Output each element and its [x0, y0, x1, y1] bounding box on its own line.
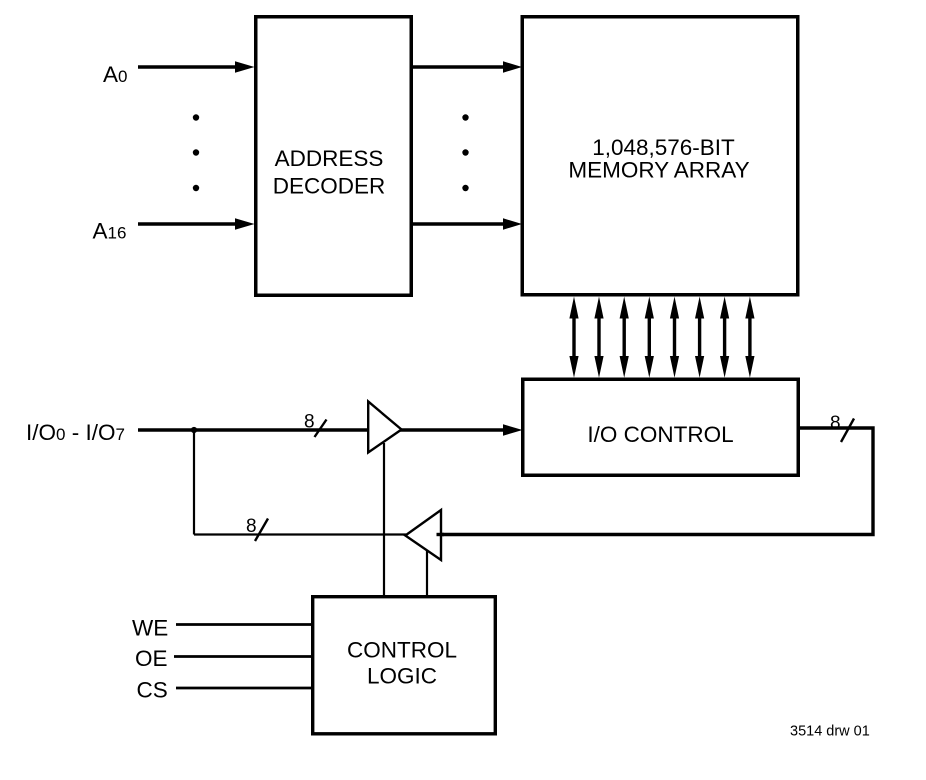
svg-text:3514 drw 01: 3514 drw 01 [790, 724, 870, 740]
wire I/O input bus [138, 428, 370, 432]
wire I/O control output right [441, 428, 873, 535]
svg-text:LOGIC: LOGIC [367, 664, 437, 689]
svg-text:8: 8 [304, 412, 315, 433]
svg-text:I/O0 - I/O7: I/O0 - I/O7 [26, 420, 125, 445]
svg-text:8: 8 [246, 516, 257, 537]
bus slash feedback [255, 519, 268, 542]
wire input buffer enable from control logic [383, 443, 385, 596]
svg-text:I/O CONTROL: I/O CONTROL [587, 422, 733, 447]
node address ellipsis dots left [193, 114, 199, 191]
block U1 ADDRESS DECODER [256, 17, 412, 296]
buffer input tri-state triangle [368, 402, 401, 453]
wire feedback bus stub into buffer [437, 533, 445, 536]
block U2 1,048,576-BIT MEMORY ARRAY [522, 17, 798, 295]
svg-text:CS: CS [137, 678, 168, 703]
buffer output tri-state triangle [405, 510, 441, 560]
node junction dot [191, 427, 197, 433]
wire CS input [176, 687, 312, 690]
svg-text:ADDRESS: ADDRESS [275, 146, 384, 171]
bus memory to I/O control double arrow 1 [569, 297, 578, 378]
svg-text:8: 8 [830, 413, 841, 434]
wire WE input [176, 623, 312, 626]
svg-text:A16: A16 [93, 219, 127, 244]
svg-text:A0: A0 [103, 62, 127, 87]
bus memory to I/O control double arrow 3 [620, 297, 629, 378]
svg-text:1,048,576-BIT: 1,048,576-BIT [592, 135, 735, 160]
svg-text:CONTROL: CONTROL [347, 638, 457, 663]
wire buffer output to I/O control arrow [400, 424, 523, 435]
wire feedback bus left thin [194, 533, 406, 535]
node ellipsis dots decoder-memory [462, 114, 468, 191]
bus slash top [315, 420, 327, 438]
bus memory to I/O control double arrow 4 [645, 297, 654, 378]
wire decoder to memory bottom arrow [413, 218, 522, 229]
bus slash right [841, 419, 854, 443]
svg-text:DECODER: DECODER [273, 174, 386, 199]
block U4 CONTROL LOGIC [313, 597, 496, 734]
bus memory to I/O control double arrow 2 [594, 297, 603, 378]
wire decoder to memory top arrow [413, 61, 522, 72]
bus memory to I/O control double arrow 8 [745, 297, 754, 378]
bus memory to I/O control double arrow 6 [695, 297, 704, 378]
bus memory to I/O control double arrow 5 [670, 297, 679, 378]
wire OE input [174, 655, 312, 658]
svg-text:MEMORY ARRAY: MEMORY ARRAY [568, 158, 749, 183]
svg-text:WE: WE [132, 616, 168, 641]
bus memory to I/O control double arrow 7 [720, 297, 729, 378]
wire A0 input arrow [138, 61, 255, 72]
svg-text:OE: OE [135, 646, 168, 671]
wire output buffer enable from control logic [426, 549, 428, 596]
block U3 I/O CONTROL [523, 379, 799, 475]
wire junction down to feedback bus [193, 430, 195, 535]
wire A16 input arrow [138, 218, 255, 229]
